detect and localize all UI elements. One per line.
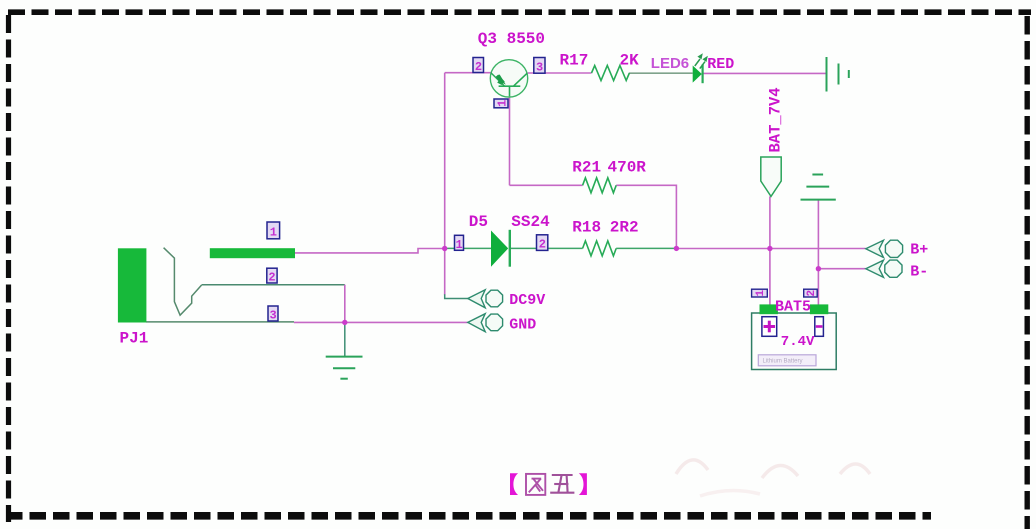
svg-text:SS24: SS24 [511,213,550,231]
svg-text:2K: 2K [620,52,640,70]
svg-text:R18: R18 [572,219,601,237]
wire D5 cathode to R18 [510,247,583,249]
wire Q3 base stem [509,86,511,185]
svg-text:Q3 8550: Q3 8550 [478,30,545,48]
port GND [468,314,503,332]
Q3 pin 2 number box [473,58,484,75]
battery BAT5 body [752,304,837,369]
svg-text:GND: GND [509,316,536,333]
LED LED6 [693,53,708,83]
svg-text:2: 2 [475,60,482,74]
svg-text:1: 1 [495,100,509,107]
wire junction to B+ port [676,248,865,250]
resistor R18 [583,241,617,256]
battery label box [758,355,816,366]
diode D5 [491,230,510,267]
svg-text:7.4V: 7.4V [781,334,815,350]
wire PJ1 pin2 to ground corner [202,284,345,286]
Q3 pin 3 number box [534,58,545,75]
ground top right (rotated) [827,57,849,92]
wire base to R21 [510,184,583,186]
PJ1 spring contact [164,248,202,316]
svg-text:3: 3 [536,60,543,74]
wire R21 to junction [616,185,676,248]
svg-text:B+: B+ [910,242,928,259]
svg-text:R21: R21 [572,159,601,177]
port B- [866,260,902,277]
junction BAT_7V4 / B+ net [767,246,772,251]
svg-text:470R: 470R [608,159,647,177]
wire PJ1 sleeve [146,321,294,323]
svg-text:Lithium Battery: Lithium Battery [763,358,803,364]
junction GND net / pin2 net [342,320,347,325]
wire GND net to port [294,321,468,323]
svg-text:BAT_7V4: BAT_7V4 [767,87,785,152]
wire ground stem [344,322,346,356]
ground inverted above battery [801,175,836,200]
power port BAT_7V4 [761,157,781,196]
svg-text:LED6: LED6 [651,55,689,72]
PJ1 pin 1 number box [267,222,280,240]
PJ1 pin 3 number box [268,306,278,323]
svg-text:D5: D5 [469,213,488,231]
svg-text:2: 2 [539,238,546,252]
svg-text:RED: RED [707,56,734,73]
svg-text:2R2: 2R2 [610,219,639,237]
BAT5 pin 2 number box (rotated) [804,289,818,297]
svg-text:1: 1 [755,290,767,297]
BAT5 pin 1 number box (rotated) [752,289,768,297]
wire inverted ground stem to battery pin2 [817,200,819,305]
D5 pin 2 number box [537,235,548,252]
connector PJ1 body [118,248,146,322]
battery minus terminal box [815,317,824,337]
wire emitter Q3 to vertical DC9V net [445,72,491,74]
wire DC9V port stub [445,294,468,298]
svg-text:2: 2 [806,290,818,297]
ground below PJ1 [326,357,363,379]
resistor R17 [592,66,630,81]
wire PJ1 pin1 to D5 [295,249,445,253]
svg-text:1: 1 [456,238,463,252]
transistor Q3 [490,60,527,97]
svg-text:BAT5: BAT5 [775,299,811,316]
junction B- / battery pin2 [816,266,821,271]
junction R18 / R21 node [674,246,679,251]
port DC9V [468,290,503,308]
wire vertical DC9V net [444,73,446,295]
wire B- net [818,268,865,270]
svg-text:DC9V: DC9V [509,292,545,309]
wire LED6 to ground [703,72,827,74]
caption 图五 (figure five) [510,473,587,495]
battery plus terminal box [762,317,777,337]
PJ1 pin 1 pad bar [210,248,295,258]
wire pin2 net vertical [344,285,346,323]
wire collector Q3 to R17 [528,72,592,74]
svg-text:B-: B- [910,264,928,281]
wire D5 anode lead [445,247,491,249]
wire R18 to junction [616,247,676,249]
D5 pin 1 number box [455,235,464,252]
port B+ [866,240,903,257]
PJ1 pin 2 number box [267,268,277,284]
resistor R21 [583,178,617,193]
wire R17 to LED6 [629,72,693,74]
svg-text:3: 3 [270,309,277,323]
svg-text:R17: R17 [560,52,589,70]
svg-text:2: 2 [268,271,275,285]
svg-text:PJ1: PJ1 [120,330,149,348]
junction at D5 anode / DC9V net [442,246,447,251]
faint erased watermark traces [676,460,870,496]
Q3 pin 1 number box (rotated) [494,99,509,108]
wire BAT_7V4 stem to battery pin1 [769,196,771,305]
svg-text:1: 1 [270,226,277,240]
